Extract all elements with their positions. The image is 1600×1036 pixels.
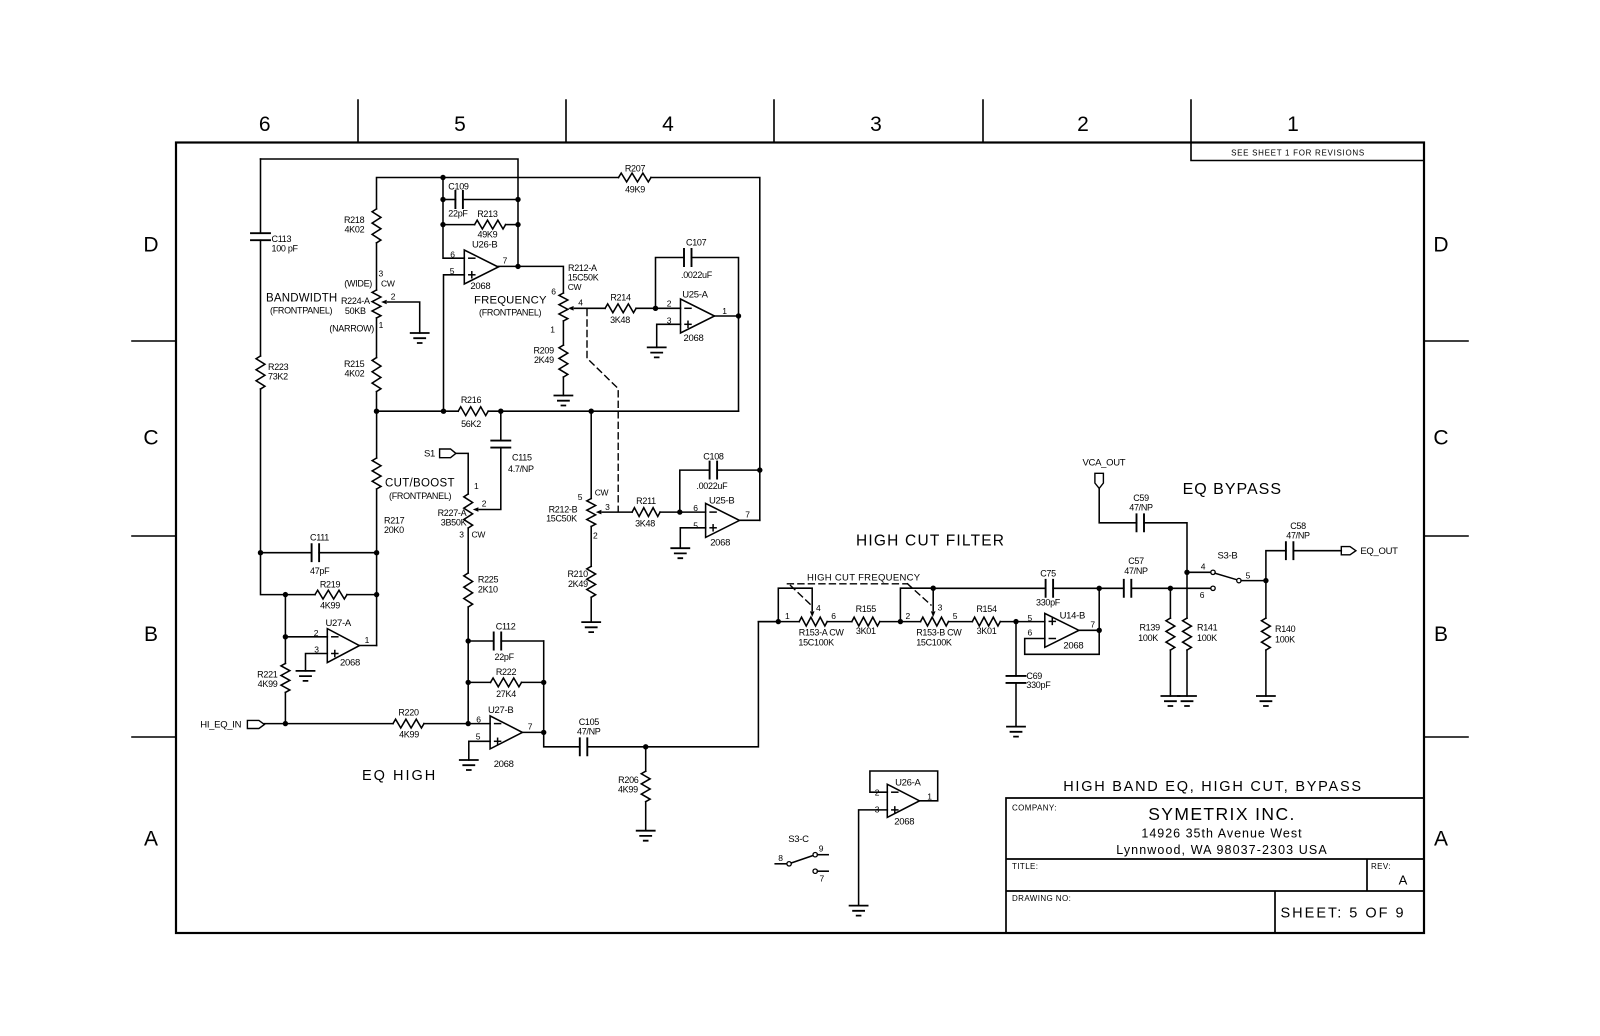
wire R206 top lead: [645, 747, 647, 771]
node R207 R218 C109: [440, 175, 445, 180]
svg-text:330pF: 330pF: [1036, 598, 1061, 608]
svg-text:C: C: [1433, 427, 1448, 450]
svg-text:5: 5: [578, 492, 583, 502]
wire rail to R217: [376, 411, 378, 458]
svg-text:R211: R211: [636, 496, 656, 506]
wire C115 to R227-A wiper: [479, 448, 501, 510]
svg-text:330pF: 330pF: [1026, 680, 1051, 690]
svg-text:5: 5: [693, 520, 698, 530]
svg-text:A: A: [1399, 873, 1408, 888]
wire R221 to input wire: [284, 692, 286, 723]
svg-text:R209: R209: [533, 346, 554, 356]
wire C107 left branch: [656, 258, 685, 309]
node C75 C57 output: [1097, 586, 1102, 591]
wire rail to R212-B: [590, 411, 592, 498]
ground U25-B pin 5: [671, 548, 689, 558]
svg-text:CW: CW: [381, 279, 395, 289]
wire C111 left lead: [261, 552, 312, 554]
svg-text:R224-A: R224-A: [341, 296, 370, 306]
wiper arrow R153-A: [810, 611, 815, 617]
wire U27-A pin 2 column: [284, 595, 286, 664]
capacitor C57: [1124, 580, 1132, 597]
svg-text:R219: R219: [320, 580, 341, 590]
svg-text:R220: R220: [398, 707, 419, 717]
svg-text:6: 6: [551, 286, 556, 296]
ground R209: [554, 396, 572, 406]
node R214 C107 pin2: [653, 306, 658, 311]
svg-text:56K2: 56K2: [461, 419, 481, 429]
svg-text:100 pF: 100 pF: [272, 244, 299, 254]
svg-text:6: 6: [1200, 590, 1205, 600]
ground R206: [637, 831, 655, 841]
svg-text:47/NP: 47/NP: [1286, 531, 1310, 541]
wire chain seg 5: [1000, 621, 1045, 623]
wire R139 to ground: [1169, 650, 1171, 696]
row ticks right: [1424, 341, 1468, 737]
svg-text:C111: C111: [310, 533, 329, 543]
wire U25-A pin 3 to ground: [657, 324, 681, 347]
svg-text:2K49: 2K49: [534, 355, 554, 365]
capacitor C58: [1286, 542, 1294, 559]
resistor R220: [393, 719, 424, 728]
svg-text:B: B: [1434, 623, 1448, 646]
node C108 right: [757, 467, 762, 472]
svg-text:HIGH BAND EQ, HIGH CUT, BYPASS: HIGH BAND EQ, HIGH CUT, BYPASS: [1063, 779, 1363, 795]
capacitor C112: [494, 633, 502, 650]
wire output node to C58: [1266, 551, 1286, 581]
svg-text:8: 8: [778, 853, 783, 863]
svg-text:2068: 2068: [470, 281, 490, 292]
svg-text:U14-B: U14-B: [1060, 610, 1085, 621]
connector tag S1: [440, 449, 456, 458]
svg-text:14926 35th Avenue West: 14926 35th Avenue West: [1141, 827, 1302, 841]
svg-text:2: 2: [482, 499, 487, 509]
svg-text:COMPANY:: COMPANY:: [1012, 804, 1057, 813]
node U25-A output: [736, 313, 741, 318]
wire R153-A wiper strap: [778, 588, 812, 621]
svg-text:C109: C109: [448, 181, 469, 191]
svg-text:TITLE:: TITLE:: [1012, 862, 1038, 871]
resistor R207: [619, 173, 652, 182]
svg-text:U27-B: U27-B: [488, 705, 513, 716]
wire C69 top lead: [1015, 622, 1017, 676]
op-amp U26-A: [887, 784, 919, 817]
svg-text:2068: 2068: [1063, 640, 1083, 651]
wire R220 to U27-B pin 6: [424, 723, 490, 725]
resistor R211: [632, 508, 660, 517]
svg-text:3: 3: [379, 269, 384, 279]
wire R224-A wiper to ground: [388, 302, 420, 333]
wire C59 to R141 column: [1144, 523, 1187, 618]
svg-text:1: 1: [550, 325, 555, 335]
op-amp U25-A: [681, 299, 715, 333]
wiper arrow R153-B: [931, 611, 936, 617]
wire U25-A output: [715, 315, 739, 317]
svg-text:100K: 100K: [1197, 633, 1217, 643]
wire C108 left branch: [680, 470, 710, 512]
capacitor C105: [580, 738, 588, 755]
svg-text:(FRONTPANEL): (FRONTPANEL): [389, 491, 452, 501]
resistor R222: [491, 678, 522, 687]
svg-text:49K9: 49K9: [477, 230, 497, 240]
resistor R139: [1166, 618, 1175, 650]
wire R218 top to feedback line: [377, 178, 619, 209]
svg-text:3K48: 3K48: [635, 518, 655, 528]
resistor R140: [1262, 618, 1271, 650]
node U25-B pin 6: [677, 509, 682, 514]
op-amp U14-B: [1045, 613, 1079, 647]
wire C109 left lead: [443, 199, 455, 201]
svg-text:3B50K: 3B50K: [441, 518, 467, 528]
wire C112 left lead: [468, 640, 494, 642]
svg-text:4: 4: [816, 603, 821, 613]
capacitor C108: [710, 462, 718, 479]
capacitor C113: [251, 233, 270, 240]
node R222 right: [541, 680, 546, 685]
resistor R217 (vertical): [372, 458, 381, 489]
ground U25-A pin 3: [648, 347, 666, 357]
wire R212-B to R210: [590, 527, 592, 567]
svg-text:(FRONTPANEL): (FRONTPANEL): [479, 307, 542, 317]
svg-text:R210: R210: [567, 569, 588, 579]
op-amp U26-B: [464, 250, 498, 284]
switch S3-C contact 8 circle: [787, 862, 791, 866]
svg-text:EQ HIGH: EQ HIGH: [362, 768, 437, 784]
node R213 right: [515, 222, 520, 227]
svg-text:R213: R213: [477, 209, 498, 219]
svg-text:D: D: [143, 234, 158, 257]
svg-text:.0022uF: .0022uF: [681, 270, 713, 280]
svg-text:C: C: [143, 427, 158, 450]
wire U27-B pin 5 to ground: [469, 741, 490, 760]
wire R219 right lead: [347, 594, 377, 596]
title block outline: [1006, 798, 1424, 933]
svg-text:SYMETRIX INC.: SYMETRIX INC.: [1148, 804, 1296, 824]
svg-text:C108: C108: [703, 451, 724, 461]
svg-text:2068: 2068: [494, 759, 514, 770]
resistor R218: [372, 209, 381, 243]
potentiometer R153-B: [921, 617, 949, 626]
wiper arrow R227-A: [473, 507, 479, 512]
svg-text:2: 2: [314, 628, 319, 638]
svg-text:(WIDE): (WIDE): [344, 279, 372, 289]
svg-text:50KB: 50KB: [345, 306, 366, 316]
wire R209 to ground: [562, 377, 564, 395]
svg-text:SEE SHEET 1 FOR REVISIONS: SEE SHEET 1 FOR REVISIONS: [1231, 149, 1365, 158]
svg-text:A: A: [144, 828, 158, 851]
row ticks left: [132, 341, 176, 737]
svg-text:C107: C107: [686, 238, 707, 248]
svg-text:100K: 100K: [1275, 635, 1295, 645]
resistor R225: [464, 573, 473, 607]
wire chain seg 3: [880, 621, 921, 623]
wire S3-C contact 9: [817, 854, 828, 856]
svg-text:R141: R141: [1197, 623, 1218, 633]
potentiometer R227-A: [464, 494, 473, 528]
wire R207 to U25-B output column: [651, 178, 760, 521]
svg-text:3: 3: [459, 530, 464, 540]
svg-text:R214: R214: [610, 293, 631, 303]
wire R222 right lead: [522, 681, 544, 683]
svg-text:C113: C113: [272, 234, 292, 244]
svg-text:47/NP: 47/NP: [1124, 566, 1148, 576]
svg-text:2K10: 2K10: [478, 584, 498, 594]
svg-text:15C50K: 15C50K: [568, 272, 599, 282]
capacitor C107: [684, 249, 692, 266]
wire S1 to R227-A pin 1: [456, 453, 468, 494]
svg-text:C115: C115: [512, 452, 532, 462]
svg-text:3K01: 3K01: [856, 626, 876, 636]
node switch 5 C58 R140: [1263, 578, 1268, 583]
op-amp U25-B: [706, 503, 740, 537]
svg-text:2K49: 2K49: [568, 579, 588, 589]
potentiometer R224-A: [372, 290, 381, 318]
svg-text:1: 1: [365, 635, 370, 645]
svg-text:4: 4: [1201, 561, 1206, 571]
wire U27-A output: [359, 645, 376, 647]
svg-text:4K99: 4K99: [618, 784, 638, 794]
node rail R212-B: [589, 409, 594, 414]
wire U27-B feedback column: [544, 641, 580, 747]
svg-text:R227-A: R227-A: [438, 508, 467, 518]
svg-text:7: 7: [528, 722, 533, 732]
node C111 right: [374, 550, 379, 555]
svg-text:FREQUENCY: FREQUENCY: [474, 294, 547, 306]
svg-text:1: 1: [785, 611, 790, 621]
svg-text:5: 5: [454, 113, 466, 136]
column ticks: [358, 100, 1191, 143]
wire R212-B wiper to R211: [602, 511, 632, 513]
node R213 left: [440, 222, 445, 227]
svg-text:U26-A: U26-A: [895, 777, 921, 788]
node U27-B output: [541, 730, 546, 735]
svg-text:5: 5: [953, 611, 958, 621]
wire U25-A output to rail: [738, 316, 740, 411]
svg-text:47/NP: 47/NP: [1129, 503, 1153, 513]
node R153-A pin 1: [776, 619, 781, 624]
svg-text:HIGH CUT FREQUENCY: HIGH CUT FREQUENCY: [807, 573, 921, 584]
node U27-A pin 2: [283, 634, 288, 639]
svg-text:47/NP: 47/NP: [577, 726, 601, 736]
svg-text:47pF: 47pF: [310, 566, 330, 576]
switch S3-B contact 5 circle: [1237, 578, 1241, 582]
svg-text:6: 6: [1027, 627, 1032, 637]
svg-text:C57: C57: [1128, 556, 1144, 566]
connector tag VCA_OUT: [1095, 473, 1104, 488]
wiper arrow R212-A: [568, 306, 574, 311]
wire R215 to rail: [376, 392, 378, 412]
svg-text:22pF: 22pF: [495, 652, 515, 662]
capacitor C115 (vertical): [491, 441, 510, 448]
wire R210 to ground: [590, 597, 592, 622]
svg-text:R140: R140: [1275, 624, 1296, 634]
wire S3-C contact 8: [775, 863, 787, 865]
wire R223 to C111: [260, 389, 262, 553]
wire C58 to EQ_OUT tag: [1293, 550, 1341, 552]
op-amp U27-B: [490, 716, 522, 749]
svg-text:C75: C75: [1040, 569, 1056, 579]
op-amp U27-A: [327, 629, 359, 663]
resistor R209: [559, 345, 568, 377]
resistor R213: [475, 220, 506, 229]
svg-text:7: 7: [503, 256, 508, 266]
wire C69 to ground: [1015, 683, 1017, 727]
svg-text:SHEET: 5 OF 9: SHEET: 5 OF 9: [1281, 906, 1406, 922]
potentiometer R212-A: [559, 293, 568, 321]
wire C105 to high cut chain: [587, 622, 778, 747]
svg-text:6: 6: [831, 611, 836, 621]
svg-text:C59: C59: [1133, 493, 1149, 503]
svg-text:15C100K: 15C100K: [916, 637, 952, 647]
svg-text:2: 2: [1077, 113, 1089, 136]
dashed gang line R212: [587, 310, 618, 512]
svg-text:2068: 2068: [710, 538, 730, 549]
wire R211 to U25-B pin 6: [660, 511, 706, 513]
wire U26-B output to R212-A: [498, 266, 563, 293]
resistor R215: [372, 358, 381, 392]
wire C111 right lead: [319, 552, 377, 554]
svg-text:EQ BYPASS: EQ BYPASS: [1183, 481, 1282, 498]
svg-text:9: 9: [819, 843, 824, 853]
svg-text:BANDWIDTH: BANDWIDTH: [266, 293, 337, 305]
svg-text:6: 6: [259, 113, 271, 136]
svg-text:1: 1: [927, 792, 932, 802]
switch S3-B contact 4 circle: [1211, 570, 1215, 574]
svg-text:CUT/BOOST: CUT/BOOST: [385, 478, 455, 490]
border frame: [176, 143, 1424, 934]
resistor R154: [972, 617, 1000, 626]
resistor R221: [281, 663, 290, 692]
wire U26-A pin 3 to ground: [859, 810, 888, 906]
capacitor C111: [312, 544, 320, 561]
wire chain seg 1: [758, 621, 799, 623]
potentiometer R153-A: [799, 617, 827, 626]
ground R224-A wiper: [411, 333, 429, 343]
resistor R223: [256, 356, 265, 389]
wire R219 row: [261, 553, 316, 595]
svg-text:R139: R139: [1139, 623, 1160, 633]
ground U26-A pin 3: [850, 906, 868, 916]
svg-text:2: 2: [593, 531, 598, 541]
dashed gang line high cut: [787, 583, 907, 585]
wire contact 5 to output node: [1241, 580, 1266, 582]
dashed gang diagonal to R153-A: [791, 586, 811, 605]
svg-text:4K99: 4K99: [258, 679, 278, 689]
svg-text:2068: 2068: [340, 658, 360, 669]
svg-text:2: 2: [667, 299, 672, 309]
svg-text:4K02: 4K02: [344, 368, 364, 378]
wire R140 top lead: [1265, 581, 1267, 619]
svg-text:4: 4: [578, 298, 583, 308]
svg-text:2: 2: [906, 611, 911, 621]
wire top loop horizontal and U26-B output column: [261, 159, 519, 266]
svg-text:5: 5: [1246, 570, 1251, 580]
wire rail left: [377, 410, 459, 412]
node C109 left: [440, 197, 445, 202]
svg-text:27K4: 27K4: [496, 689, 516, 699]
node rail U26-B pin5: [441, 409, 446, 414]
node rail C115: [498, 409, 503, 414]
svg-text:R155: R155: [856, 604, 877, 614]
svg-text:R153-A CW: R153-A CW: [799, 628, 845, 638]
wire C113 top lead: [260, 159, 262, 233]
svg-text:VCA_OUT: VCA_OUT: [1083, 458, 1126, 469]
svg-text:3K48: 3K48: [610, 315, 630, 325]
svg-text:3: 3: [938, 603, 943, 613]
wire R217 to U27-A output column: [376, 489, 378, 645]
node R153-B pin 2: [898, 619, 903, 624]
svg-text:(NARROW): (NARROW): [329, 324, 374, 334]
svg-text:S3-C: S3-C: [788, 834, 809, 845]
wire R206 to ground: [645, 802, 647, 831]
ground R141: [1178, 696, 1196, 706]
wire R213 left lead: [443, 224, 475, 226]
svg-text:HIGH CUT FILTER: HIGH CUT FILTER: [856, 533, 1005, 550]
svg-text:.0022uF: .0022uF: [696, 481, 728, 491]
node R222 left: [466, 680, 471, 685]
wire S3-C contact 7: [817, 870, 828, 872]
potentiometer R212-B: [587, 499, 596, 527]
wire U27-A pin 2 stub: [285, 636, 327, 638]
dashed gang diagonal to R153-B: [908, 584, 932, 605]
wire R140 to ground: [1265, 650, 1267, 696]
wire HI_EQ_IN to R220: [264, 723, 393, 725]
svg-text:4.7/NP: 4.7/NP: [508, 464, 534, 474]
node R154 C69 pin5: [1013, 619, 1018, 624]
wire R139 top lead: [1169, 588, 1171, 618]
resistor R219: [315, 590, 347, 599]
node C109 right: [515, 197, 520, 202]
svg-text:D: D: [1433, 234, 1448, 257]
node switch contact 4 branch: [1184, 570, 1189, 575]
svg-text:1: 1: [1287, 113, 1299, 136]
node C111 left: [258, 550, 263, 555]
revisions box: [1191, 143, 1424, 161]
node R219 right: [374, 592, 379, 597]
wire U26-A feedback loop: [870, 771, 938, 801]
svg-text:7: 7: [745, 509, 750, 519]
svg-text:U26-B: U26-B: [472, 240, 497, 251]
resistor R206: [641, 771, 650, 801]
svg-text:R207: R207: [625, 164, 646, 174]
ground R139: [1161, 696, 1179, 706]
svg-text:7: 7: [820, 874, 825, 884]
wire chain seg 4: [949, 621, 973, 623]
node U27-B pin 6: [466, 721, 471, 726]
switch S3-B blade: [1215, 573, 1237, 580]
wire R153-B wiper strap: [900, 588, 933, 621]
wire U14-B feedback: [1025, 588, 1100, 654]
capacitor C59: [1137, 514, 1145, 531]
wire U27-B output: [522, 731, 543, 733]
svg-text:U25-A: U25-A: [682, 289, 708, 300]
wire R213 right lead: [506, 224, 518, 226]
svg-text:100K: 100K: [1138, 633, 1158, 643]
svg-text:R225: R225: [478, 574, 499, 584]
svg-text:1: 1: [722, 306, 727, 316]
svg-text:7: 7: [1090, 620, 1095, 630]
svg-text:(FRONTPANEL): (FRONTPANEL): [270, 306, 333, 316]
svg-text:U25-B: U25-B: [709, 496, 734, 507]
svg-text:R153-B CW: R153-B CW: [916, 628, 962, 638]
capacitor C75: [1046, 580, 1054, 597]
wire C57 to switch contact 6: [1131, 587, 1211, 589]
wire R224-A to R215: [376, 318, 378, 358]
svg-text:EQ_OUT: EQ_OUT: [1360, 546, 1398, 557]
svg-text:73K2: 73K2: [268, 372, 288, 382]
resistor R216: [458, 407, 488, 416]
wire R153-B wiper to C75: [933, 587, 1045, 589]
